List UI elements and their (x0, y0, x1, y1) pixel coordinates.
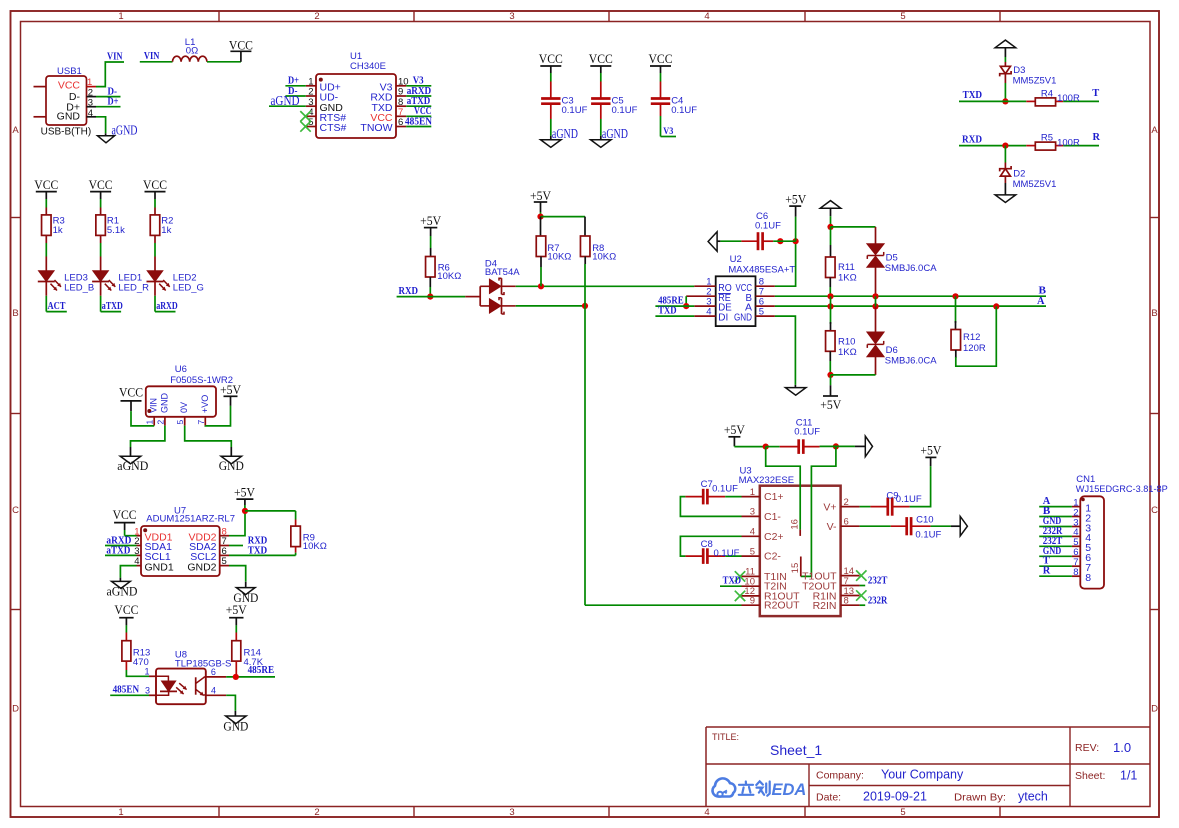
svg-text:aGND: aGND (112, 123, 138, 138)
svg-text:3: 3 (145, 686, 150, 696)
svg-text:V3: V3 (663, 127, 673, 137)
svg-text:Date:: Date: (816, 792, 841, 804)
svg-text:6: 6 (844, 517, 849, 528)
svg-text:+5V: +5V (920, 444, 941, 458)
svg-text:5: 5 (750, 546, 755, 557)
svg-text:B: B (12, 308, 18, 319)
svg-text:USB-B(TH): USB-B(TH) (41, 126, 92, 137)
svg-text:C: C (1151, 505, 1158, 516)
svg-text:+5V: +5V (724, 423, 745, 437)
svg-text:V+: V+ (823, 502, 836, 514)
svg-text:CH340E: CH340E (350, 61, 386, 72)
svg-text:2: 2 (844, 497, 849, 508)
svg-text:485EN: 485EN (113, 685, 140, 696)
svg-text:D+: D+ (108, 97, 119, 108)
svg-text:5: 5 (900, 11, 905, 22)
svg-text:A: A (1151, 125, 1158, 136)
svg-text:aGND: aGND (117, 459, 148, 473)
svg-text:aGND: aGND (271, 94, 300, 109)
svg-text:R4: R4 (1041, 88, 1053, 99)
svg-text:aTXD: aTXD (102, 301, 123, 312)
svg-text:R2OUT: R2OUT (764, 600, 800, 612)
svg-text:485EN: 485EN (405, 116, 432, 127)
svg-text:4: 4 (704, 11, 709, 22)
svg-text:8: 8 (1073, 567, 1078, 578)
svg-text:VIN: VIN (149, 398, 159, 413)
svg-text:B: B (1151, 308, 1157, 319)
svg-text:6: 6 (398, 117, 403, 128)
svg-text:LED_R: LED_R (118, 283, 149, 294)
svg-text:C8: C8 (701, 539, 713, 550)
svg-text:R2IN: R2IN (813, 600, 837, 612)
svg-text:+5V: +5V (234, 485, 255, 499)
svg-text:8: 8 (844, 596, 849, 607)
svg-text:0.1UF: 0.1UF (714, 548, 740, 559)
svg-text:LED_B: LED_B (64, 283, 94, 294)
svg-text:SMBJ6.0CA: SMBJ6.0CA (885, 263, 937, 274)
svg-text:D5: D5 (886, 252, 898, 263)
svg-text:CTS#: CTS# (320, 122, 347, 134)
svg-text:VCC: VCC (113, 508, 137, 522)
svg-text:5: 5 (175, 420, 185, 425)
svg-text:0V: 0V (179, 402, 189, 413)
svg-text:V-: V- (827, 521, 837, 533)
svg-text:REV:: REV: (1075, 742, 1099, 754)
svg-text:3: 3 (750, 507, 755, 518)
svg-text:D: D (12, 704, 19, 715)
svg-text:3: 3 (509, 807, 514, 818)
svg-text:VCC: VCC (34, 178, 58, 192)
svg-text:MAX232ESE: MAX232ESE (739, 475, 794, 486)
svg-text:WJ15EDGRC-3.81-8P: WJ15EDGRC-3.81-8P (1076, 484, 1168, 495)
svg-text:+5V: +5V (530, 189, 551, 203)
svg-text:LED_G: LED_G (173, 283, 204, 294)
svg-text:MM5Z5V1: MM5Z5V1 (1013, 179, 1057, 190)
svg-text:MM5Z5V1: MM5Z5V1 (1013, 76, 1057, 87)
svg-text:R11: R11 (838, 262, 855, 273)
svg-text:1: 1 (750, 487, 755, 498)
svg-text:10KΩ: 10KΩ (547, 252, 571, 263)
svg-text:+5V: +5V (785, 192, 806, 206)
svg-text:DI: DI (718, 312, 728, 324)
svg-text:Your Company: Your Company (881, 768, 964, 782)
svg-text:GND1: GND1 (145, 561, 174, 573)
svg-text:ADUM1251ARZ-RL7: ADUM1251ARZ-RL7 (146, 513, 235, 524)
svg-text:4: 4 (706, 307, 711, 318)
svg-text:TLP185GB-S: TLP185GB-S (175, 658, 232, 669)
svg-text:VCC: VCC (143, 178, 167, 192)
svg-text:SMBJ6.0CA: SMBJ6.0CA (885, 355, 937, 366)
svg-text:100R: 100R (1057, 137, 1080, 148)
svg-text:EDA: EDA (772, 781, 807, 799)
svg-text:4: 4 (704, 807, 709, 818)
svg-text:+5V: +5V (420, 214, 441, 228)
svg-text:RXD: RXD (399, 286, 419, 297)
svg-text:2: 2 (314, 807, 319, 818)
svg-text:VCC: VCC (649, 52, 673, 66)
svg-text:D2: D2 (1013, 169, 1025, 180)
svg-text:232R: 232R (868, 595, 888, 606)
svg-text:0.1UF: 0.1UF (562, 105, 588, 116)
svg-text:VCC: VCC (589, 52, 613, 66)
svg-text:GND: GND (223, 720, 248, 734)
svg-text:A: A (1037, 296, 1045, 307)
svg-text:ytech: ytech (1018, 790, 1048, 804)
svg-text:10KΩ: 10KΩ (437, 271, 461, 282)
svg-text:C1+: C1+ (764, 491, 784, 503)
svg-text:GND: GND (159, 393, 169, 414)
svg-text:Sheet:: Sheet: (1075, 770, 1105, 782)
svg-text:10KΩ: 10KΩ (592, 252, 616, 263)
svg-text:3: 3 (509, 11, 514, 22)
svg-text:6: 6 (211, 667, 216, 677)
svg-text:aRXD: aRXD (156, 301, 178, 312)
svg-text:GND: GND (219, 459, 244, 473)
svg-text:0.1UF: 0.1UF (671, 105, 697, 116)
svg-text:D6: D6 (886, 345, 898, 356)
svg-text:VCC: VCC (114, 603, 138, 617)
svg-text:1KΩ: 1KΩ (838, 347, 857, 358)
svg-text:aGND: aGND (552, 127, 578, 142)
svg-text:4: 4 (750, 527, 755, 538)
svg-text:TNOW: TNOW (360, 122, 392, 134)
svg-text:TXD: TXD (658, 306, 677, 317)
svg-text:0Ω: 0Ω (186, 46, 198, 57)
svg-text:+5V: +5V (220, 383, 241, 397)
svg-text:0.1UF: 0.1UF (612, 105, 638, 116)
svg-text:VIN: VIN (144, 51, 160, 62)
svg-text:0.1UF: 0.1UF (896, 494, 922, 505)
svg-text:Company:: Company: (816, 770, 864, 782)
svg-text:USB1: USB1 (57, 66, 82, 77)
svg-text:100R: 100R (1057, 93, 1080, 104)
svg-text:MAX485ESA+T: MAX485ESA+T (728, 264, 795, 275)
svg-text:1: 1 (118, 807, 123, 818)
svg-text:TXD: TXD (723, 575, 742, 586)
svg-text:R5: R5 (1041, 133, 1053, 144)
svg-text:5.1k: 5.1k (107, 225, 125, 236)
svg-text:Drawn By:: Drawn By: (954, 792, 1006, 804)
svg-text:1: 1 (144, 667, 149, 677)
svg-text:VCC: VCC (229, 38, 253, 52)
svg-text:VCC: VCC (539, 52, 563, 66)
svg-text:C: C (12, 505, 19, 516)
svg-text:D3: D3 (1013, 65, 1025, 76)
svg-text:0.1UF: 0.1UF (755, 221, 781, 232)
svg-text:2: 2 (314, 11, 319, 22)
svg-text:R: R (1043, 566, 1051, 577)
svg-text:1k: 1k (53, 225, 63, 236)
svg-text:1: 1 (145, 420, 155, 425)
svg-text:R12: R12 (963, 332, 980, 343)
svg-text:D: D (1151, 704, 1158, 715)
svg-text:2019-09-21: 2019-09-21 (863, 790, 927, 804)
svg-text:0.1UF: 0.1UF (915, 530, 941, 541)
svg-text:5: 5 (900, 807, 905, 818)
svg-text:TXD: TXD (963, 90, 983, 101)
svg-text:C2+: C2+ (764, 531, 784, 543)
svg-text:120R: 120R (963, 343, 986, 354)
svg-text:232T: 232T (868, 576, 888, 587)
svg-text:C10: C10 (916, 514, 933, 525)
svg-text:aTXD: aTXD (106, 545, 130, 556)
svg-text:Sheet_1: Sheet_1 (770, 742, 822, 758)
svg-text:C7: C7 (701, 479, 713, 490)
svg-text:2: 2 (155, 420, 165, 425)
svg-text:GND: GND (57, 110, 81, 122)
svg-text:RXD: RXD (962, 134, 982, 145)
svg-text:0.1UF: 0.1UF (794, 427, 820, 438)
svg-text:C1-: C1- (764, 511, 781, 523)
svg-text:R: R (1093, 132, 1101, 143)
svg-text:7: 7 (196, 420, 206, 425)
svg-text:TXD: TXD (248, 546, 268, 557)
svg-text:+VO: +VO (200, 395, 210, 413)
svg-text:9: 9 (750, 596, 755, 607)
svg-text:0.1UF: 0.1UF (712, 484, 738, 495)
svg-text:+5V: +5V (820, 398, 841, 412)
svg-text:GND: GND (734, 312, 752, 324)
svg-text:GND2: GND2 (187, 561, 216, 573)
svg-text:16: 16 (790, 519, 801, 530)
svg-text:VCC: VCC (89, 178, 113, 192)
svg-text:1KΩ: 1KΩ (838, 272, 857, 283)
svg-text:A: A (12, 125, 19, 136)
svg-text:U6: U6 (175, 364, 187, 375)
svg-text:TITLE:: TITLE: (712, 732, 739, 742)
svg-text:+5V: +5V (226, 603, 247, 617)
svg-text:VCC: VCC (58, 80, 81, 92)
svg-text:BAT54A: BAT54A (485, 267, 520, 278)
svg-text:T: T (1092, 88, 1099, 99)
svg-text:8: 8 (1085, 572, 1091, 584)
svg-text:485RE: 485RE (248, 665, 275, 676)
svg-text:1/1: 1/1 (1120, 769, 1137, 783)
svg-text:aGND: aGND (107, 585, 138, 599)
svg-text:C2-: C2- (764, 551, 781, 563)
svg-text:4: 4 (211, 686, 216, 696)
svg-text:1k: 1k (161, 225, 171, 236)
svg-text:15: 15 (790, 563, 801, 574)
svg-text:ACT: ACT (48, 301, 66, 312)
svg-text:1: 1 (118, 11, 123, 22)
svg-text:10KΩ: 10KΩ (303, 541, 327, 552)
svg-text:aGND: aGND (602, 127, 628, 142)
svg-text:1.0: 1.0 (1113, 740, 1131, 755)
svg-text:VCC: VCC (119, 385, 143, 399)
svg-text:VIN: VIN (107, 51, 123, 62)
